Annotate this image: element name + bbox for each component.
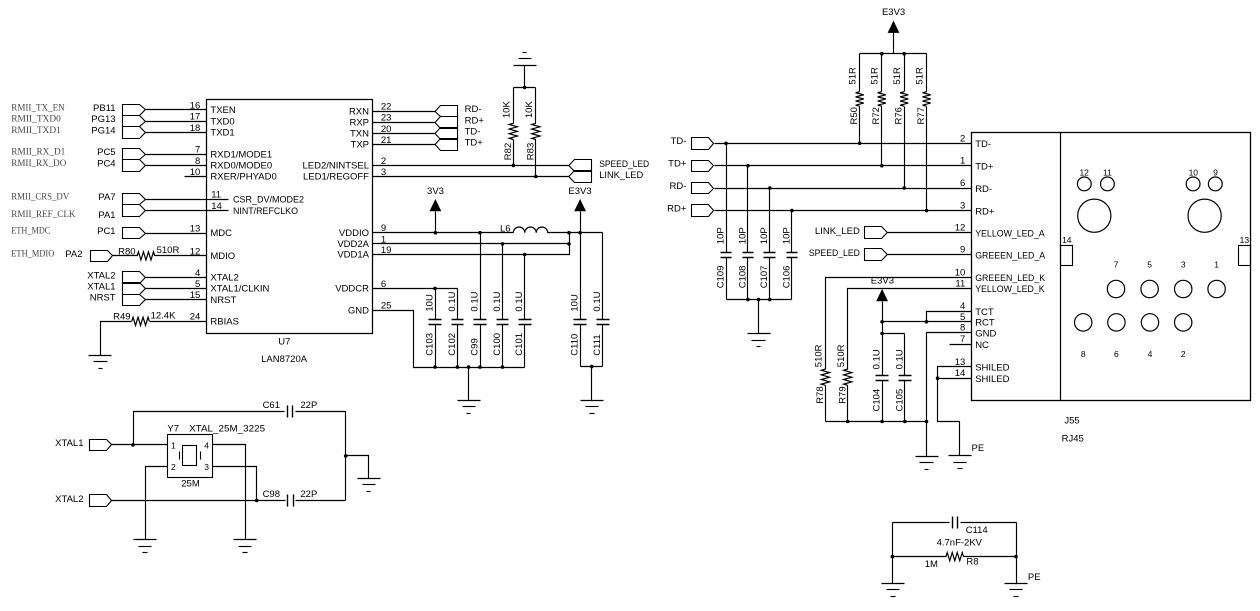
resistor R82 10K bbox=[502, 88, 518, 166]
ground below J55 GND bbox=[916, 456, 939, 458]
junction C107 top bbox=[768, 186, 772, 190]
svg-text:R8: R8 bbox=[966, 557, 978, 568]
J55 contact 7 bbox=[1107, 260, 1124, 298]
svg-text:C99: C99 bbox=[469, 338, 480, 355]
svg-text:GND: GND bbox=[348, 305, 369, 316]
svg-text:12: 12 bbox=[1079, 167, 1089, 177]
svg-text:NRST: NRST bbox=[90, 293, 116, 304]
svg-text:J55: J55 bbox=[1064, 415, 1079, 426]
svg-text:C109: C109 bbox=[715, 266, 726, 289]
svg-text:C106: C106 bbox=[781, 266, 792, 289]
J55 pin 9 GREEEN_LED_A bbox=[960, 245, 1046, 262]
svg-text:GREEEN_LED_K: GREEEN_LED_K bbox=[975, 273, 1046, 284]
svg-text:C114: C114 bbox=[966, 525, 988, 536]
svg-text:9: 9 bbox=[1213, 167, 1218, 177]
svg-text:RXD0/MODE0: RXD0/MODE0 bbox=[210, 161, 272, 172]
svg-text:RMII_TXD0: RMII_TXD0 bbox=[11, 115, 61, 125]
svg-text:RXER/PHYAD0: RXER/PHYAD0 bbox=[210, 172, 276, 183]
wire J55 GND pin 8 bbox=[927, 333, 972, 457]
svg-text:XTAL2: XTAL2 bbox=[55, 494, 83, 505]
wire U7 RXN bbox=[373, 111, 436, 113]
svg-text:PA1: PA1 bbox=[98, 210, 115, 221]
wire U7 TXP bbox=[373, 144, 436, 146]
svg-text:C108: C108 bbox=[737, 266, 748, 289]
svg-text:E3V3: E3V3 bbox=[568, 186, 591, 197]
wire PG13 to U7 bbox=[146, 121, 207, 123]
wire U7 VDDCR bbox=[373, 288, 458, 290]
J55 pin 1 TD+ bbox=[960, 156, 994, 173]
connector J55 RJ45 body bbox=[972, 133, 1251, 445]
ground PE at J55 bbox=[949, 443, 985, 469]
svg-text:PE: PE bbox=[1028, 572, 1041, 583]
capacitor C106 10P bbox=[781, 211, 797, 300]
svg-text:CSR_DV/MODE2: CSR_DV/MODE2 bbox=[233, 195, 304, 206]
svg-text:C101: C101 bbox=[514, 333, 525, 356]
svg-text:13: 13 bbox=[190, 223, 201, 234]
svg-text:SHILED: SHILED bbox=[975, 374, 1009, 385]
svg-text:8: 8 bbox=[195, 156, 200, 167]
wire PA1 to U7 bbox=[146, 210, 207, 212]
svg-text:7: 7 bbox=[195, 145, 200, 156]
svg-text:51R: 51R bbox=[914, 67, 925, 85]
svg-text:14: 14 bbox=[1062, 235, 1072, 245]
svg-text:XTAL1: XTAL1 bbox=[55, 438, 83, 449]
svg-text:0.1U: 0.1U bbox=[872, 349, 883, 369]
port RD+ bbox=[435, 115, 484, 128]
power E3V3 top bbox=[882, 7, 905, 53]
wire U7 LED2/NINTSEL to SPEED_LED bbox=[373, 165, 570, 167]
ground below C99 group bbox=[458, 400, 481, 402]
wire PB11 to U7 bbox=[146, 109, 207, 111]
svg-text:XTAL1: XTAL1 bbox=[87, 282, 115, 293]
port XTAL2 bbox=[55, 494, 111, 507]
junction R72 rail bbox=[880, 52, 884, 56]
J55 large hole left bbox=[1078, 199, 1111, 232]
svg-text:MDC: MDC bbox=[210, 228, 232, 239]
wire ground rail R78 to GND bbox=[826, 421, 927, 423]
resistor R50 51R bbox=[848, 54, 864, 144]
junction C108 rail bbox=[746, 298, 750, 302]
svg-text:0.1U: 0.1U bbox=[894, 349, 905, 369]
svg-text:XTAL1/CLKIN: XTAL1/CLKIN bbox=[210, 284, 269, 295]
J55 pin 10 GREEEN_LED_K bbox=[955, 267, 1046, 284]
svg-text:22P: 22P bbox=[300, 400, 317, 411]
svg-text:R80: R80 bbox=[118, 246, 135, 257]
J55 contact 8 bbox=[1075, 314, 1092, 359]
svg-text:10U: 10U bbox=[424, 294, 435, 312]
junction XTAL1 to C61 bbox=[131, 443, 135, 447]
svg-text:GND: GND bbox=[975, 329, 996, 340]
junction R76 bbox=[902, 186, 906, 190]
svg-text:4: 4 bbox=[960, 301, 965, 312]
svg-text:0.1U: 0.1U bbox=[592, 291, 603, 311]
junction C103 on VDDCR bbox=[433, 287, 437, 291]
J55 pin 5 RCT bbox=[960, 312, 995, 329]
svg-text:1: 1 bbox=[1214, 260, 1219, 270]
svg-text:7: 7 bbox=[1114, 260, 1119, 270]
wire left branch to ground bbox=[892, 523, 894, 584]
svg-text:12.4K: 12.4K bbox=[151, 310, 176, 321]
junction TCT/RCT bbox=[925, 320, 929, 324]
svg-text:11: 11 bbox=[211, 190, 221, 201]
J55 contact 4 bbox=[1141, 314, 1158, 359]
wire XTAL2 to C98 bbox=[112, 500, 286, 502]
junction on GND rail bbox=[433, 365, 437, 369]
junction E3V3/C110 on VDD line bbox=[578, 231, 582, 235]
svg-text:XTAL2: XTAL2 bbox=[87, 271, 115, 282]
junction VDD feed bbox=[567, 231, 571, 235]
junction R83 on LINK_LED line bbox=[534, 175, 538, 179]
port RD- to RJ45 bbox=[670, 181, 714, 194]
svg-text:TD-: TD- bbox=[671, 136, 687, 147]
wire GND rail to ground bbox=[468, 368, 470, 401]
svg-text:C102: C102 bbox=[447, 333, 458, 356]
svg-text:NINT/REFCLKO: NINT/REFCLKO bbox=[233, 206, 298, 217]
resistor R79 510R bbox=[836, 344, 852, 421]
capacitor C99 0.1U bbox=[469, 233, 486, 368]
port PC4 bbox=[97, 159, 145, 172]
wire XTAL1 to U7 bbox=[146, 288, 207, 290]
svg-text:R79: R79 bbox=[837, 386, 848, 403]
svg-text:PA7: PA7 bbox=[98, 192, 115, 203]
wire R80 to U7 MDIO bbox=[155, 255, 207, 257]
svg-text:14: 14 bbox=[955, 368, 966, 379]
wire SPEED_LED to J55 bbox=[888, 254, 972, 256]
junction C100 on VDD2A bbox=[501, 242, 505, 246]
junction rail stem bbox=[757, 298, 761, 302]
wire J55 pin 11 to R79 bbox=[848, 289, 972, 370]
wire U7 RXP bbox=[373, 122, 436, 124]
junction R76 rail bbox=[902, 52, 906, 56]
svg-text:3V3: 3V3 bbox=[427, 186, 444, 197]
svg-text:16: 16 bbox=[190, 100, 201, 111]
svg-text:3: 3 bbox=[204, 462, 209, 472]
svg-text:4: 4 bbox=[1148, 349, 1153, 359]
ground at R49 bbox=[89, 355, 112, 357]
wire right branch to PE ground bbox=[1016, 523, 1018, 584]
svg-text:TXD0: TXD0 bbox=[210, 116, 234, 127]
svg-text:TXEN: TXEN bbox=[210, 105, 235, 116]
wire LINK_LED to J55 bbox=[888, 232, 972, 234]
svg-text:ETH_MDC: ETH_MDC bbox=[11, 226, 50, 236]
resistor R80 510R bbox=[118, 245, 179, 260]
svg-text:R78: R78 bbox=[815, 386, 826, 403]
svg-text:VDDIO: VDDIO bbox=[339, 228, 369, 239]
port XTAL1 bbox=[55, 438, 111, 451]
power E3V3 bbox=[568, 186, 591, 232]
resistor R78 510R bbox=[814, 344, 830, 421]
junction ground rail bbox=[903, 420, 907, 424]
wire R8 left bbox=[893, 556, 947, 558]
svg-text:RMII_TXD1: RMII_TXD1 bbox=[11, 126, 61, 136]
svg-text:3: 3 bbox=[1181, 260, 1186, 270]
svg-text:LED2/NINTSEL: LED2/NINTSEL bbox=[302, 161, 369, 172]
J55 pin 4 TCT bbox=[960, 301, 994, 318]
capacitor C109 10P bbox=[715, 144, 731, 300]
junction C104/C105 node bbox=[880, 332, 884, 336]
J55 contact 1 bbox=[1208, 260, 1225, 298]
wire E3V3 rail bbox=[860, 53, 927, 55]
wire SHILED to PE ground bbox=[938, 379, 960, 456]
capacitor C100 0.1U bbox=[492, 244, 509, 368]
port TD- to RJ45 bbox=[671, 136, 714, 149]
wire PG14 to U7 bbox=[146, 132, 207, 134]
wire PA7 to U7 bbox=[146, 199, 207, 201]
wire PC4 to U7 bbox=[146, 165, 207, 167]
svg-text:10P: 10P bbox=[737, 227, 748, 244]
svg-text:10: 10 bbox=[190, 167, 201, 178]
svg-text:RXN: RXN bbox=[349, 106, 369, 117]
inductor L6 bbox=[500, 224, 548, 235]
svg-text:7: 7 bbox=[960, 334, 965, 345]
wire Y7 pin 3 to XTAL2 net bbox=[213, 467, 257, 501]
svg-text:NRST: NRST bbox=[210, 295, 236, 306]
capacitor C107 10P bbox=[759, 189, 775, 300]
svg-text:RMII_CRS_DV: RMII_CRS_DV bbox=[11, 193, 69, 203]
svg-text:GREEEN_LED_A: GREEEN_LED_A bbox=[975, 250, 1046, 261]
svg-text:C103: C103 bbox=[424, 333, 435, 356]
svg-text:SHILED: SHILED bbox=[975, 363, 1009, 374]
svg-text:1: 1 bbox=[171, 440, 176, 450]
power E3V3 mid bbox=[871, 275, 894, 333]
svg-text:5: 5 bbox=[195, 279, 200, 290]
svg-text:R82: R82 bbox=[503, 143, 514, 160]
J55 contact 6 bbox=[1108, 314, 1125, 359]
svg-text:10K: 10K bbox=[502, 101, 513, 119]
wire R8 right bbox=[964, 556, 1017, 558]
wire U7 GND pin 25 bbox=[373, 311, 525, 368]
wire U7 VDDIO bbox=[373, 232, 514, 234]
svg-text:U7: U7 bbox=[278, 337, 290, 348]
svg-text:17: 17 bbox=[190, 112, 201, 123]
svg-text:RXP: RXP bbox=[349, 117, 369, 128]
resistor R72 51R bbox=[870, 54, 886, 166]
svg-text:10: 10 bbox=[1189, 167, 1199, 177]
J55 pin 14 SHILED bbox=[955, 368, 1010, 385]
resistor R77 51R bbox=[914, 54, 930, 211]
svg-text:VDD1A: VDD1A bbox=[337, 250, 369, 261]
port LINK_LED to RJ45 bbox=[815, 226, 887, 239]
svg-text:11: 11 bbox=[955, 278, 965, 289]
wire U7 VDD1A bbox=[373, 233, 570, 255]
svg-text:C61: C61 bbox=[263, 400, 280, 411]
wire Y7 pin 4 to ground bbox=[213, 445, 246, 540]
svg-text:R77: R77 bbox=[916, 107, 927, 124]
svg-text:4.7nF-2KV: 4.7nF-2KV bbox=[937, 537, 983, 548]
junction bbox=[523, 86, 527, 90]
svg-text:8: 8 bbox=[1081, 349, 1086, 359]
svg-text:Y7: Y7 bbox=[167, 424, 179, 435]
svg-text:0.1U: 0.1U bbox=[447, 291, 458, 311]
J55 pin 8 GND bbox=[960, 323, 996, 340]
svg-text:TXN: TXN bbox=[350, 129, 369, 140]
wire C61 to ground node bbox=[296, 412, 346, 501]
wire XTAL2 to U7 bbox=[146, 277, 207, 279]
svg-text:R76: R76 bbox=[894, 107, 905, 124]
J55 tab 14 bbox=[1061, 235, 1073, 266]
svg-text:RD-: RD- bbox=[670, 181, 687, 192]
svg-text:YELLOW_LED_A: YELLOW_LED_A bbox=[975, 228, 1045, 239]
svg-text:0.1U: 0.1U bbox=[492, 291, 503, 311]
wire PC5 to U7 bbox=[146, 154, 207, 156]
junction R77 bbox=[925, 209, 929, 213]
svg-text:5: 5 bbox=[960, 312, 965, 323]
junction C101 on VDD1A bbox=[523, 253, 527, 257]
port SPEED_LED to RJ45 bbox=[809, 248, 887, 261]
svg-text:PB11: PB11 bbox=[93, 103, 116, 114]
ground right of crystal bbox=[358, 478, 381, 480]
svg-text:LED1/REGOFF: LED1/REGOFF bbox=[303, 172, 369, 183]
svg-text:RBIAS: RBIAS bbox=[210, 316, 239, 327]
svg-text:6: 6 bbox=[960, 178, 965, 189]
wire R49 to U7 RBIAS bbox=[150, 321, 207, 323]
svg-text:510R: 510R bbox=[836, 344, 847, 367]
port PA1 bbox=[98, 205, 145, 221]
wire node to ground bbox=[346, 456, 369, 479]
wire XTAL1 up to C61 bbox=[134, 412, 285, 445]
svg-text:TD-: TD- bbox=[975, 139, 991, 150]
wire NRST to U7 bbox=[146, 299, 207, 301]
svg-text:10U: 10U bbox=[570, 294, 581, 312]
wire PC1 to U7 bbox=[146, 233, 207, 235]
capacitor C98 22P bbox=[263, 489, 318, 506]
svg-text:PG13: PG13 bbox=[91, 114, 115, 125]
junction on GND rail bbox=[501, 365, 505, 369]
capacitor C104 0.1U bbox=[872, 334, 889, 422]
svg-text:RMII_RX_D1: RMII_RX_D1 bbox=[11, 148, 65, 158]
svg-text:TCT: TCT bbox=[975, 307, 994, 318]
wire C114 top left bbox=[893, 522, 950, 524]
wire rail to ground bbox=[758, 300, 760, 334]
wire J55 SHILED pin 13 bbox=[938, 367, 972, 379]
capacitor C103 10U bbox=[424, 289, 441, 368]
svg-text:13: 13 bbox=[955, 357, 966, 368]
port NRST bbox=[90, 293, 146, 306]
junction SHILED 13/14 bbox=[936, 376, 940, 380]
svg-text:9: 9 bbox=[960, 245, 965, 256]
svg-text:RJ45: RJ45 bbox=[1062, 433, 1084, 444]
J55 pin 11 YELLOW_LED_K bbox=[955, 278, 1045, 295]
wire J55 TCT pin 4 bbox=[927, 312, 972, 322]
J55 LED hole 12 bbox=[1077, 167, 1091, 191]
wire C114 top right bbox=[961, 522, 1017, 524]
wire U7 TXN bbox=[373, 133, 436, 135]
svg-text:C98: C98 bbox=[263, 489, 280, 500]
svg-text:RMII_RX_DO: RMII_RX_DO bbox=[11, 159, 66, 169]
svg-text:TD+: TD+ bbox=[975, 162, 994, 173]
wire J55 NC pin 7 stub bbox=[950, 344, 972, 346]
junction 3V3 on VDDIO line bbox=[434, 231, 438, 235]
svg-text:12: 12 bbox=[955, 223, 966, 234]
ground above R82 R83 bbox=[514, 53, 537, 88]
svg-text:PC1: PC1 bbox=[97, 226, 115, 237]
svg-text:ETH_MDIO: ETH_MDIO bbox=[11, 249, 54, 259]
wire XTAL1 to Y7 pin 1 bbox=[112, 444, 168, 446]
port PG13 bbox=[91, 114, 145, 126]
ground below C114 left bbox=[882, 583, 905, 585]
svg-text:C100: C100 bbox=[492, 333, 503, 356]
wire stub U7 pin 10 RXER bbox=[185, 176, 207, 178]
svg-text:XTAL2: XTAL2 bbox=[210, 273, 238, 284]
capacitor C111 0.1U bbox=[592, 233, 609, 367]
svg-text:MDIO: MDIO bbox=[210, 251, 235, 262]
svg-text:22P: 22P bbox=[300, 489, 317, 500]
svg-text:PE: PE bbox=[972, 443, 985, 454]
ground below Y7 pin 4 bbox=[234, 539, 257, 541]
svg-text:RD+: RD+ bbox=[975, 206, 995, 217]
wire rail to ground bbox=[591, 367, 593, 401]
wire C98 to ground node bbox=[296, 500, 346, 502]
port XTAL1 bbox=[87, 282, 145, 295]
svg-text:YELLOW_LED_K: YELLOW_LED_K bbox=[975, 284, 1045, 295]
wire U7 LED1/REGOFF to LINK_LED bbox=[373, 176, 570, 178]
U7 pin name CSR_DV/MODE2 bbox=[207, 195, 305, 206]
svg-text:14: 14 bbox=[211, 201, 222, 212]
wire RD- to J55 bbox=[715, 188, 972, 190]
svg-text:1: 1 bbox=[960, 156, 965, 167]
svg-text:5: 5 bbox=[1147, 260, 1152, 270]
svg-text:51R: 51R bbox=[870, 67, 881, 85]
J55 LED hole 11 bbox=[1101, 167, 1115, 191]
capacitor C105 0.1U bbox=[894, 334, 911, 422]
svg-text:TXD1: TXD1 bbox=[210, 128, 234, 139]
junction C106 top bbox=[790, 209, 794, 213]
svg-text:51R: 51R bbox=[848, 67, 859, 85]
junction GND rail stem bbox=[467, 365, 471, 369]
wire U7 VDD2A bbox=[373, 243, 570, 245]
junction R82 on SPEED_LED line bbox=[512, 164, 516, 168]
junction ground rail bbox=[880, 420, 884, 424]
wire node to C105 bbox=[883, 333, 905, 335]
junction on GND rail bbox=[478, 365, 482, 369]
svg-text:25M: 25M bbox=[181, 478, 200, 489]
svg-text:VDD2A: VDD2A bbox=[337, 239, 369, 250]
ground below C109 group bbox=[748, 333, 771, 335]
svg-text:TD+: TD+ bbox=[668, 159, 687, 170]
J55 pin 6 RD- bbox=[960, 178, 992, 195]
J55 LED hole 10 bbox=[1186, 167, 1200, 191]
junction R72 bbox=[880, 164, 884, 168]
J55 pin 2 TD- bbox=[960, 133, 991, 150]
junction ground rail bbox=[925, 420, 929, 424]
svg-text:XTAL_25M_3225: XTAL_25M_3225 bbox=[189, 424, 265, 435]
port PC5 bbox=[97, 147, 145, 159]
svg-text:RD-: RD- bbox=[975, 184, 992, 195]
svg-text:6: 6 bbox=[1114, 349, 1119, 359]
wire J55 RCT pin 5 bbox=[883, 321, 972, 323]
svg-text:8: 8 bbox=[960, 323, 965, 334]
svg-text:R72: R72 bbox=[871, 107, 882, 124]
svg-text:RD+: RD+ bbox=[465, 115, 485, 126]
svg-text:C107: C107 bbox=[759, 266, 770, 289]
J55 tab 13 bbox=[1239, 235, 1251, 266]
svg-text:PC4: PC4 bbox=[97, 159, 115, 170]
svg-text:4: 4 bbox=[204, 440, 209, 450]
junction Y7 pin3 on XTAL2 line bbox=[255, 499, 259, 503]
svg-text:510R: 510R bbox=[157, 245, 180, 256]
wire L6 to C111 bbox=[548, 232, 603, 234]
svg-text:R50: R50 bbox=[849, 107, 860, 124]
wire TD+ to J55 bbox=[715, 165, 972, 167]
svg-text:SPEED_LED: SPEED_LED bbox=[809, 248, 860, 259]
svg-text:10P: 10P bbox=[781, 227, 792, 244]
port TD+ bbox=[435, 138, 483, 151]
port SPEED_LED bbox=[569, 159, 650, 171]
wire C109 C106 ground rail bbox=[727, 299, 792, 301]
J55 pin 13 SHILED bbox=[955, 357, 1010, 374]
J55 contact 2 bbox=[1175, 314, 1192, 359]
svg-text:11: 11 bbox=[1103, 167, 1112, 177]
